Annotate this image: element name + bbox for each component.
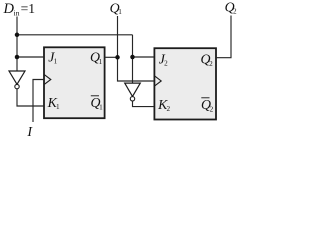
- wire Din vertical stem: [16, 17, 18, 71]
- overline for Q1bar: [91, 95, 99, 97]
- wire J1 input: [17, 56, 44, 58]
- wire vertical drop to inverter U2 input: [132, 35, 134, 83]
- junction node Q1: [115, 55, 120, 60]
- junction node J2 branch: [130, 55, 135, 60]
- svg-text:1: 1: [54, 57, 58, 65]
- svg-text:1: 1: [118, 8, 122, 16]
- wire Q1 label stem: [117, 16, 119, 57]
- wire I input to FF1 clock: [33, 80, 44, 123]
- wire inverter U2 output to K2: [133, 101, 155, 106]
- svg-text:1: 1: [56, 103, 60, 111]
- svg-text:=1: =1: [21, 1, 35, 16]
- inverter U1 triangle: [9, 71, 25, 84]
- svg-text:2: 2: [167, 105, 171, 113]
- wire top horizontal (Din to J2 branch): [17, 34, 133, 36]
- svg-text:2: 2: [209, 60, 213, 68]
- FF1 clock chevron: [44, 75, 50, 85]
- junction node Din/top-wire: [15, 33, 20, 38]
- svg-text:in: in: [14, 8, 20, 17]
- wire J2 input: [133, 56, 155, 58]
- inverter U2 bubble: [130, 97, 134, 101]
- overline for Q2bar: [201, 97, 209, 99]
- wire Q1 output: [105, 56, 118, 58]
- junction node Din/J1: [15, 55, 20, 60]
- wire Q2 output to label: [216, 16, 231, 58]
- FF2 clock chevron: [155, 76, 161, 86]
- wire Q1 to FF2 clock: [118, 57, 155, 81]
- svg-text:2: 2: [233, 8, 237, 16]
- wire inverter U1 output to K1: [17, 89, 44, 106]
- svg-text:1: 1: [99, 103, 103, 111]
- flip-flop FF2 box: [154, 48, 216, 119]
- svg-text:2: 2: [210, 105, 214, 113]
- svg-text:1: 1: [99, 58, 103, 66]
- inverter U1 bubble: [15, 84, 19, 88]
- flip-flop FF1 box: [44, 47, 105, 118]
- inverter U2 triangle: [125, 83, 141, 96]
- svg-text:2: 2: [164, 59, 168, 67]
